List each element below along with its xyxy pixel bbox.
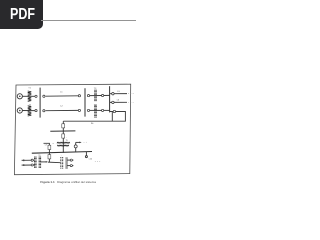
- svg-text:L1: L1: [60, 92, 63, 94]
- bus 1: [39, 88, 41, 118]
- T7 secondary output B: [67, 165, 73, 167]
- breaker box (upper): [62, 124, 65, 128]
- wire line L1: [46, 95, 79, 97]
- wire G1 to T1: [22, 95, 34, 97]
- T7 secondary output A: [67, 159, 73, 161]
- wire: [62, 128, 64, 134]
- svg-text:..: ..: [61, 155, 63, 157]
- breaker node (right of bus 1, line 2): [43, 110, 45, 112]
- local feeder with arrow: [74, 142, 81, 152]
- transformer T2: [28, 106, 32, 116]
- svg-text:L5: L5: [118, 91, 121, 93]
- label dots near T4 bottom: [91, 123, 93, 124]
- wire G2 to T2: [22, 110, 34, 112]
- transformer T3: [95, 90, 96, 101]
- breaker node (T3 primary side): [87, 95, 89, 97]
- breaker node (left of bus 3, line 2): [78, 109, 80, 111]
- breaker box (L7 lower): [48, 155, 51, 159]
- breaker node (T3 secondary side): [102, 94, 104, 96]
- breaker node (L8): [31, 159, 33, 161]
- wire through T3: [90, 95, 102, 97]
- svg-text:T1: T1: [28, 88, 31, 90]
- wire through T4: [90, 109, 102, 111]
- breaker node (left of bus 1, line 1): [35, 95, 37, 97]
- bus 2: [109, 86, 111, 112]
- wire line L9: [24, 164, 35, 166]
- bus 5 end drop: [85, 152, 87, 158]
- breaker node (T4 secondary side): [102, 109, 104, 111]
- wire T3 to bus 2: [104, 94, 110, 96]
- svg-text:L2: L2: [60, 106, 63, 108]
- vertical feeder drop at x 63: [62, 121, 64, 124]
- breaker node (right of bus 1, line 1): [43, 95, 45, 97]
- svg-text:T6: T6: [38, 155, 40, 157]
- generator G2: [17, 108, 22, 113]
- wire T4 to bus 2: [104, 109, 110, 111]
- transformer T7 primary winding: [61, 157, 63, 169]
- continuation dots (L6): [128, 101, 133, 104]
- wire: [62, 138, 64, 153]
- breaker node (left of bus 1, line 2): [35, 110, 37, 112]
- incoming line L9 terminal tick: [22, 164, 24, 166]
- breaker node (T4 primary side): [87, 109, 89, 111]
- breaker node (L9): [31, 164, 33, 166]
- transformer T5 windings (wavy): [57, 142, 70, 146]
- transformer T7 core bars: [66, 157, 67, 169]
- continuation dots (L10): [95, 160, 100, 163]
- wire to T6 output: [48, 159, 50, 163]
- feeder L7 stub: [44, 143, 50, 145]
- generator G1: [17, 94, 22, 99]
- feeder line L5: [110, 93, 127, 95]
- breaker box (lower): [62, 134, 65, 138]
- T6 output wire with arrow junction: [41, 161, 61, 163]
- breaker node (feeder L6): [112, 101, 114, 103]
- svg-text:T3: T3: [94, 88, 97, 90]
- feeder elbow wire to lower section: [63, 112, 125, 122]
- breaker node (lower feeder): [113, 110, 115, 112]
- feeder line L6: [110, 101, 127, 103]
- transformer T6 primary winding: [35, 157, 36, 168]
- breaker node (left of bus 3, line 1): [78, 95, 80, 97]
- svg-text:T2: T2: [29, 104, 32, 106]
- wire line L2: [46, 109, 79, 111]
- continuation dots (arrow feeder): [84, 141, 87, 144]
- bus 3: [84, 88, 86, 116]
- transformer T6 secondary winding: [39, 157, 40, 168]
- wire: [48, 150, 50, 155]
- svg-text:L10: L10: [89, 159, 92, 161]
- continuation dots (L5): [128, 92, 133, 95]
- svg-text:Figura 1.1 Diagrama unifilar: Figura 1.1 Diagrama unifilar del sistema: [40, 180, 96, 184]
- incoming line L8 terminal tick: [22, 159, 24, 161]
- bus 5: [32, 152, 92, 154]
- svg-text:..: ..: [66, 136, 68, 138]
- transformer T1: [28, 91, 32, 101]
- svg-text:L6: L6: [117, 99, 120, 101]
- transformer T4: [95, 105, 96, 118]
- svg-text:a: a: [53, 143, 55, 145]
- breaker node (feeder L5): [112, 93, 114, 95]
- svg-text:L7: L7: [45, 145, 48, 147]
- breaker box (L7 upper): [48, 145, 51, 149]
- wire connector (lower feeder loop): [111, 112, 113, 122]
- bus 4: [50, 130, 75, 132]
- wire line L8: [24, 159, 35, 161]
